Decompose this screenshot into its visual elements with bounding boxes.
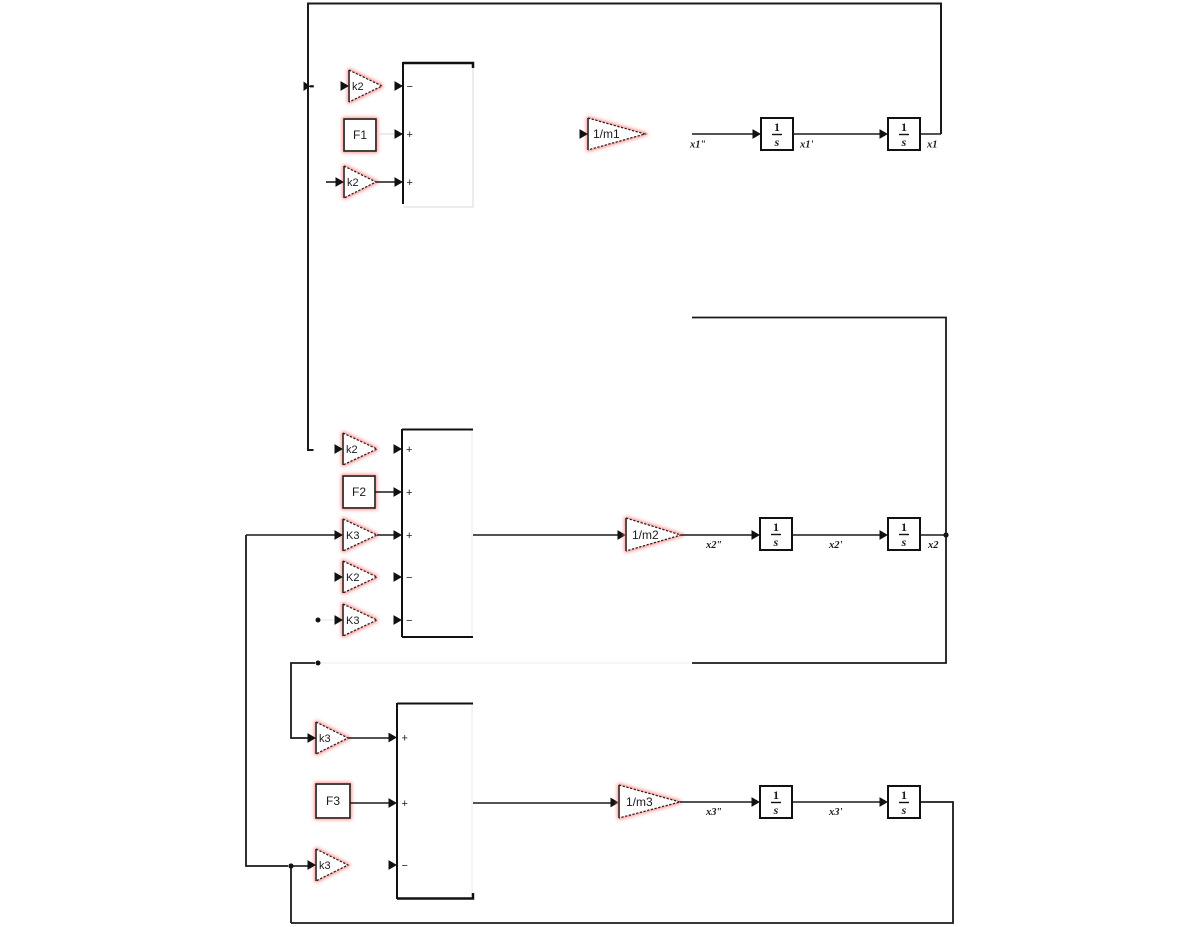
faint wire dot to K3 — [321, 619, 335, 621]
wire feedback x2 upper — [692, 318, 946, 536]
sum block S3 — [389, 703, 474, 899]
wire x3 feedback bottom — [291, 802, 953, 923]
wire x2 out — [921, 534, 946, 536]
gain K3 lower (middle section) — [343, 604, 377, 636]
svg-text:k3: k3 — [319, 860, 331, 872]
wire junction down to bottom — [290, 866, 292, 923]
svg-text:+: + — [407, 177, 413, 189]
wire feedback x1 top loop — [308, 4, 941, 451]
port arrow K2 — [335, 572, 344, 582]
svg-text:+: + — [402, 798, 408, 810]
svg-text:+: + — [407, 129, 413, 141]
svg-text:F3: F3 — [326, 794, 340, 808]
svg-text:x2": x2" — [705, 540, 722, 551]
svg-text:K3: K3 — [346, 530, 359, 542]
sum block S1 — [395, 62, 474, 207]
svg-text:k2: k2 — [352, 81, 364, 93]
wire junction to k3 lower — [293, 865, 308, 867]
svg-text:k2: k2 — [346, 444, 358, 456]
svg-text:1/m1: 1/m1 — [593, 127, 620, 141]
wire x3 to K3 — [246, 534, 335, 536]
svg-text:+: + — [406, 444, 412, 456]
wire x2' — [793, 534, 880, 536]
port arrow 1/m1 — [580, 129, 589, 139]
wire x1' — [793, 133, 880, 135]
wire x3 feedback left vertical — [246, 535, 288, 866]
wire feedback x2 lower — [692, 535, 946, 663]
wire K3 to sum2 — [377, 534, 394, 536]
integrator 1/s (x1' ) — [761, 118, 793, 150]
integrator 1/s (x2) — [888, 518, 920, 550]
gain k2 (top section, feedback) — [349, 70, 382, 102]
gain k3 (bottom section, lower) — [316, 849, 348, 881]
integrator 1/s (x3) — [888, 786, 920, 818]
gain 1/m3 — [619, 785, 680, 818]
gain 1/m1 — [588, 118, 645, 150]
svg-text:+: + — [406, 487, 412, 499]
wire sum2 to 1/m2 — [473, 534, 618, 536]
svg-text:x1: x1 — [926, 140, 938, 151]
wire F3 to sum3 — [350, 802, 389, 804]
node dot x2 branch — [316, 661, 321, 666]
svg-text:x2: x2 — [927, 540, 939, 551]
constant F3 — [316, 784, 350, 818]
wire 1/m3 to integrator — [680, 801, 752, 803]
svg-text:−: − — [402, 860, 408, 872]
svg-text:x1": x1" — [689, 140, 706, 151]
gain k2 (top section, input) — [344, 166, 376, 198]
svg-text:K2: K2 — [346, 572, 359, 584]
svg-text:x2': x2' — [828, 540, 843, 551]
faint wire x2 lower continuation — [321, 662, 690, 664]
integrator 1/s (x1) — [888, 118, 920, 150]
port arrow k2 middle — [335, 444, 344, 454]
integrator 1/s (x2') — [760, 518, 792, 550]
faint wire F1 to sum — [377, 133, 394, 135]
gain k2 (middle section) — [343, 433, 377, 465]
node dot before K3 lower — [316, 618, 321, 623]
svg-text:+: + — [406, 530, 412, 542]
junction x3 branch — [288, 863, 293, 868]
junction arrow on x1 feedback — [304, 82, 314, 92]
constant F1 — [344, 119, 376, 151]
gain k3 (bottom section, upper) — [316, 722, 348, 754]
wire F2 to sum2 — [375, 491, 394, 493]
svg-text:+: + — [402, 733, 408, 745]
wire elbow to k3 (bottom section) — [291, 663, 315, 738]
svg-text:x3": x3" — [705, 807, 722, 818]
svg-text:x1': x1' — [799, 140, 814, 151]
svg-text:−: − — [406, 615, 412, 627]
wire 1/m2 to integrator — [681, 534, 752, 536]
svg-text:−: − — [407, 81, 413, 93]
sum block S2 — [394, 429, 474, 637]
wire x1 out — [921, 133, 941, 135]
svg-text:k3: k3 — [319, 733, 331, 745]
port arrow k2 top — [341, 81, 350, 91]
svg-text:F2: F2 — [352, 485, 366, 499]
svg-text:x3': x3' — [828, 807, 843, 818]
gain 1/m2 — [626, 518, 681, 551]
integrator 1/s (x3') — [760, 786, 792, 818]
junction x2 — [943, 532, 948, 537]
wire x3' — [793, 801, 880, 803]
gain K2 (middle section) — [343, 561, 377, 593]
wire x1'' to integrator — [692, 133, 753, 135]
svg-text:−: − — [406, 572, 412, 584]
wire sum3 to 1/m3 — [473, 802, 611, 804]
svg-text:1/m3: 1/m3 — [626, 795, 653, 809]
svg-text:F1: F1 — [353, 128, 367, 142]
wire k2 to sum1 — [376, 181, 395, 183]
wire k3 to sum3 — [348, 737, 389, 739]
svg-text:K3: K3 — [346, 615, 359, 627]
gain K3 (middle section) — [343, 519, 377, 551]
svg-text:k2: k2 — [347, 177, 359, 189]
constant F2 — [343, 476, 375, 508]
svg-text:1/m2: 1/m2 — [632, 528, 659, 542]
wire into k2 — [326, 181, 337, 183]
